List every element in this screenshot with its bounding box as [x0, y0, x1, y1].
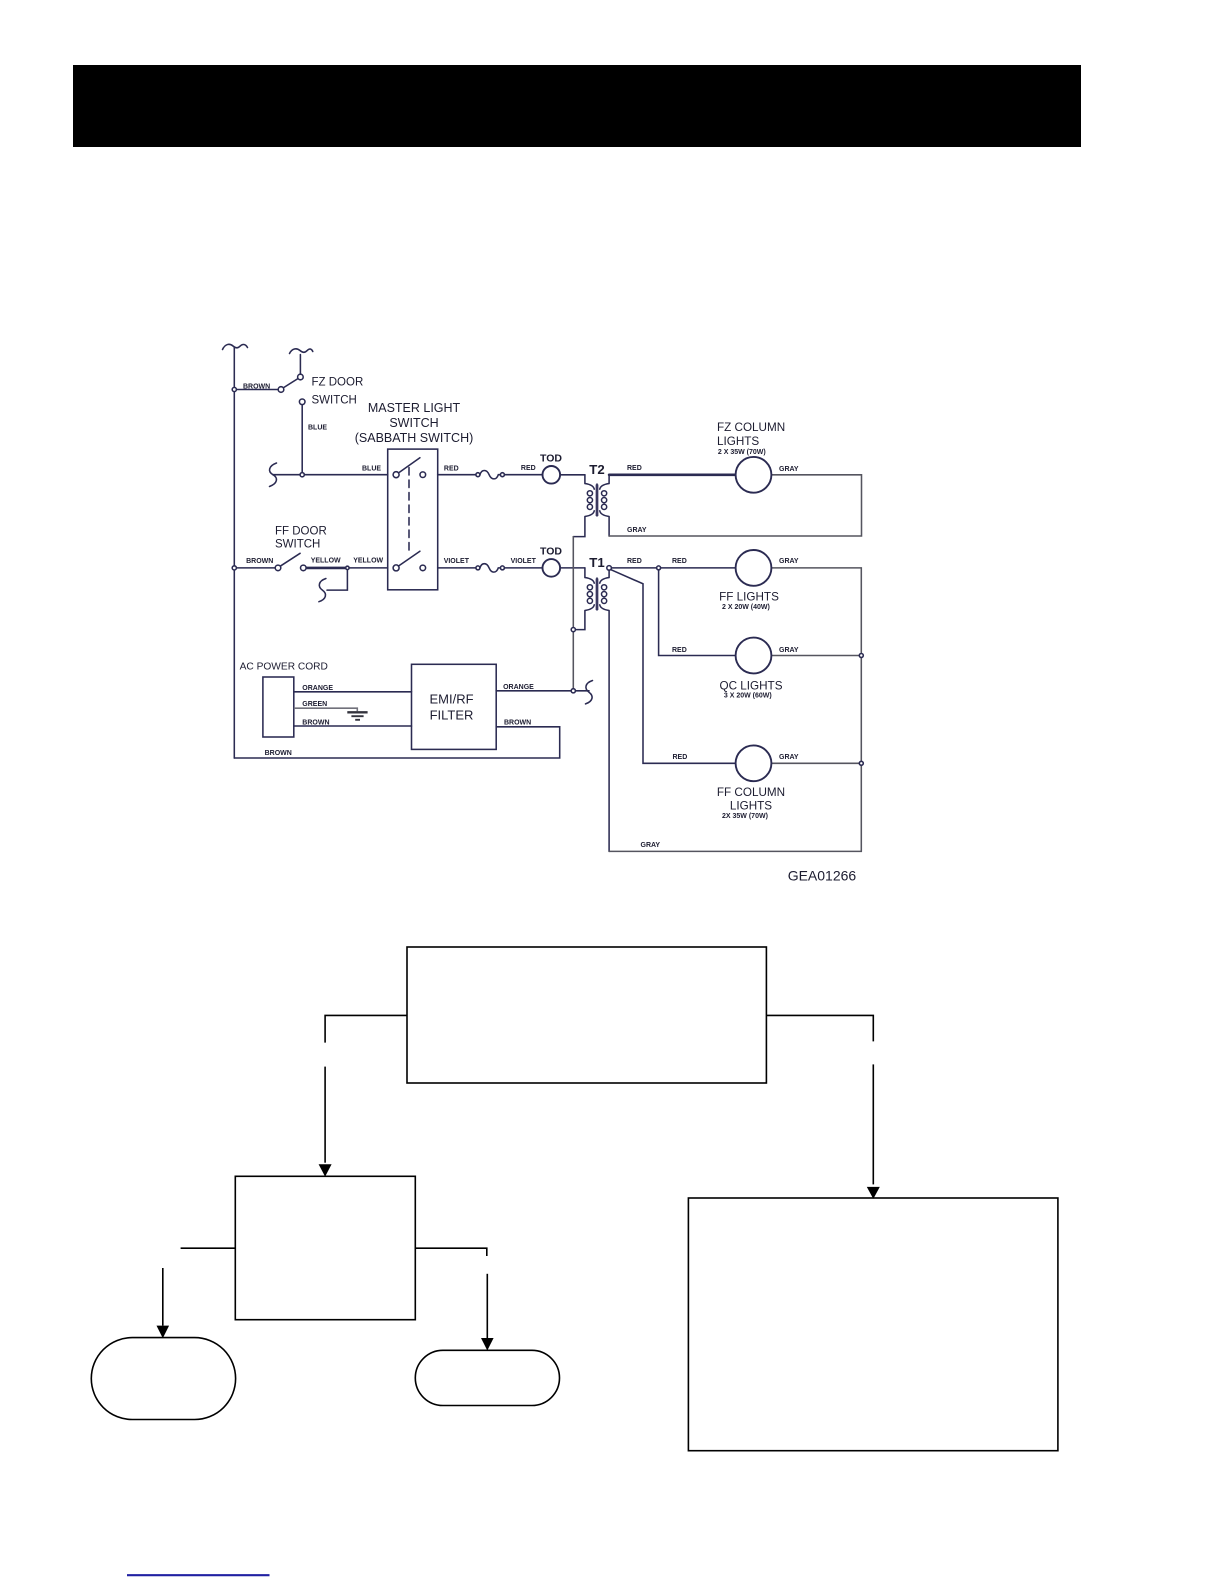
svg-text:T2: T2 — [589, 462, 604, 477]
svg-text:EMI/RF: EMI/RF — [429, 692, 473, 707]
svg-text:GREEN: GREEN — [302, 701, 327, 708]
svg-text:FF LIGHTS: FF LIGHTS — [719, 591, 779, 604]
svg-text:TOD: TOD — [540, 452, 562, 464]
svg-text:YELLOW: YELLOW — [311, 558, 341, 565]
svg-text:RED: RED — [672, 647, 687, 654]
svg-text:RED: RED — [627, 465, 642, 472]
svg-text:RED: RED — [673, 754, 688, 761]
svg-text:BROWN: BROWN — [504, 719, 531, 726]
svg-text:2 X 35W (70W): 2 X 35W (70W) — [718, 449, 766, 456]
svg-text:YELLOW: YELLOW — [353, 558, 383, 565]
svg-text:FF DOOR: FF DOOR — [275, 526, 327, 538]
svg-text:GRAY: GRAY — [779, 466, 799, 473]
svg-text:QC LIGHTS: QC LIGHTS — [720, 679, 783, 692]
svg-text:VIOLET: VIOLET — [511, 558, 537, 565]
svg-text:GRAY: GRAY — [779, 754, 799, 761]
svg-text:SWITCH: SWITCH — [275, 538, 320, 550]
svg-text:GRAY: GRAY — [779, 647, 799, 654]
svg-text:BROWN: BROWN — [243, 383, 270, 390]
svg-text:BLUE: BLUE — [308, 424, 327, 431]
svg-text:FF COLUMN: FF COLUMN — [717, 786, 785, 799]
svg-text:GRAY: GRAY — [627, 527, 647, 534]
svg-text:GRAY: GRAY — [641, 842, 661, 849]
svg-text:AC POWER CORD: AC POWER CORD — [240, 662, 328, 673]
svg-text:SWITCH: SWITCH — [312, 394, 357, 406]
svg-text:TOD: TOD — [540, 546, 562, 558]
svg-text:RED: RED — [444, 466, 459, 473]
svg-text:GRAY: GRAY — [779, 558, 799, 565]
svg-text:SWITCH: SWITCH — [389, 416, 438, 430]
svg-text:RED: RED — [521, 465, 536, 472]
svg-text:BROWN: BROWN — [265, 750, 292, 757]
svg-text:3 X 20W (60W): 3 X 20W (60W) — [724, 693, 772, 700]
svg-text:RED: RED — [672, 558, 687, 565]
svg-text:FZ DOOR: FZ DOOR — [312, 377, 364, 389]
svg-text:BROWN: BROWN — [246, 558, 273, 565]
svg-text:RED: RED — [627, 558, 642, 565]
svg-text:LIGHTS: LIGHTS — [717, 435, 759, 448]
svg-text:FZ COLUMN: FZ COLUMN — [717, 421, 785, 434]
svg-text:BLUE: BLUE — [362, 466, 381, 473]
svg-text:2X 35W (70W): 2X 35W (70W) — [722, 813, 768, 820]
svg-text:ORANGE: ORANGE — [503, 684, 534, 691]
svg-text:2 X 20W (40W): 2 X 20W (40W) — [722, 604, 770, 611]
svg-text:GEA01266: GEA01266 — [788, 868, 857, 884]
svg-text:VIOLET: VIOLET — [444, 558, 470, 565]
svg-text:FILTER: FILTER — [430, 707, 474, 722]
svg-text:MASTER LIGHT: MASTER LIGHT — [368, 401, 461, 415]
svg-text:(SABBATH SWITCH): (SABBATH SWITCH) — [355, 431, 474, 445]
svg-text:BROWN: BROWN — [302, 719, 329, 726]
svg-text:ORANGE: ORANGE — [302, 685, 333, 692]
svg-text:T1: T1 — [589, 555, 604, 570]
svg-text:LIGHTS: LIGHTS — [730, 800, 772, 813]
